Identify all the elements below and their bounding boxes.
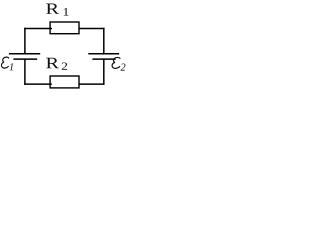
wire: left branch, lower vertical (E1 bottom plate down to bottom-left corner): [24, 59, 26, 85]
wire: top rail, right segment (R1 right lead to top-right corner): [79, 28, 105, 30]
battery E2: top plate (long): [88, 53, 119, 55]
wire: bottom rail, left segment (bottom-left corner to R2 left lead): [24, 83, 52, 85]
battery E1: top plate (long): [9, 53, 40, 55]
label R2: [46, 58, 67, 70]
wire: top rail, left segment (top-left corner to R1 left lead): [24, 28, 52, 30]
label R1: [46, 4, 68, 16]
resistor R1: [50, 22, 79, 34]
battery E2: bottom plate (short): [92, 58, 115, 60]
wire: right branch, upper vertical (top-right corner down to E2 top plate): [103, 28, 105, 54]
label E1 (script E with subscript 1): [1, 57, 13, 70]
wire: bottom rail, right segment (R2 right lead to bottom-right corner): [79, 83, 105, 85]
wire: left branch, upper vertical (top-left corner down to E1 top plate): [24, 28, 26, 54]
resistor R2: [50, 76, 79, 88]
label E2 (script E with subscript 2): [112, 57, 125, 70]
battery E1: bottom plate (short): [13, 58, 37, 60]
wire: right branch, lower vertical (E2 bottom plate down to bottom-right corner): [103, 59, 105, 85]
